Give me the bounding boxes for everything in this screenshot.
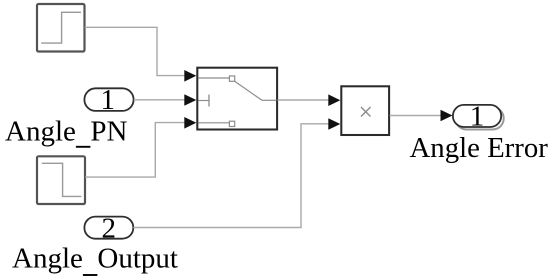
svg-text:Angle PN: Angle PN <box>5 115 128 147</box>
step source block Step (step up) <box>37 4 85 52</box>
svg-text:1: 1 <box>101 84 116 116</box>
svg-text:Angle Error: Angle Error <box>410 132 549 164</box>
switch block Switch <box>197 68 277 130</box>
product block Product <box>341 86 389 135</box>
svg-text:Angle Output: Angle Output <box>12 242 178 274</box>
inport In1 oval "1" <box>84 84 133 116</box>
wire In1 to Switch in2 <box>134 94 197 106</box>
outport Out1 oval "1" <box>453 100 504 132</box>
wire Switch to Product in1 <box>278 94 341 106</box>
label Angle Error <box>410 132 549 164</box>
svg-text:1: 1 <box>470 100 485 132</box>
wire Step1 to Switch in3 <box>85 117 196 177</box>
label Angle_Output <box>12 242 178 275</box>
svg-text:2: 2 <box>102 213 117 245</box>
wire Product to Out1 <box>390 110 453 122</box>
wire In2 to Product in2 <box>133 118 340 227</box>
label Angle_PN <box>5 115 128 147</box>
inport In2 oval "2" <box>84 213 133 245</box>
wire Step to Switch in1 <box>85 27 197 81</box>
step source block Step1 (step down) <box>37 156 85 204</box>
